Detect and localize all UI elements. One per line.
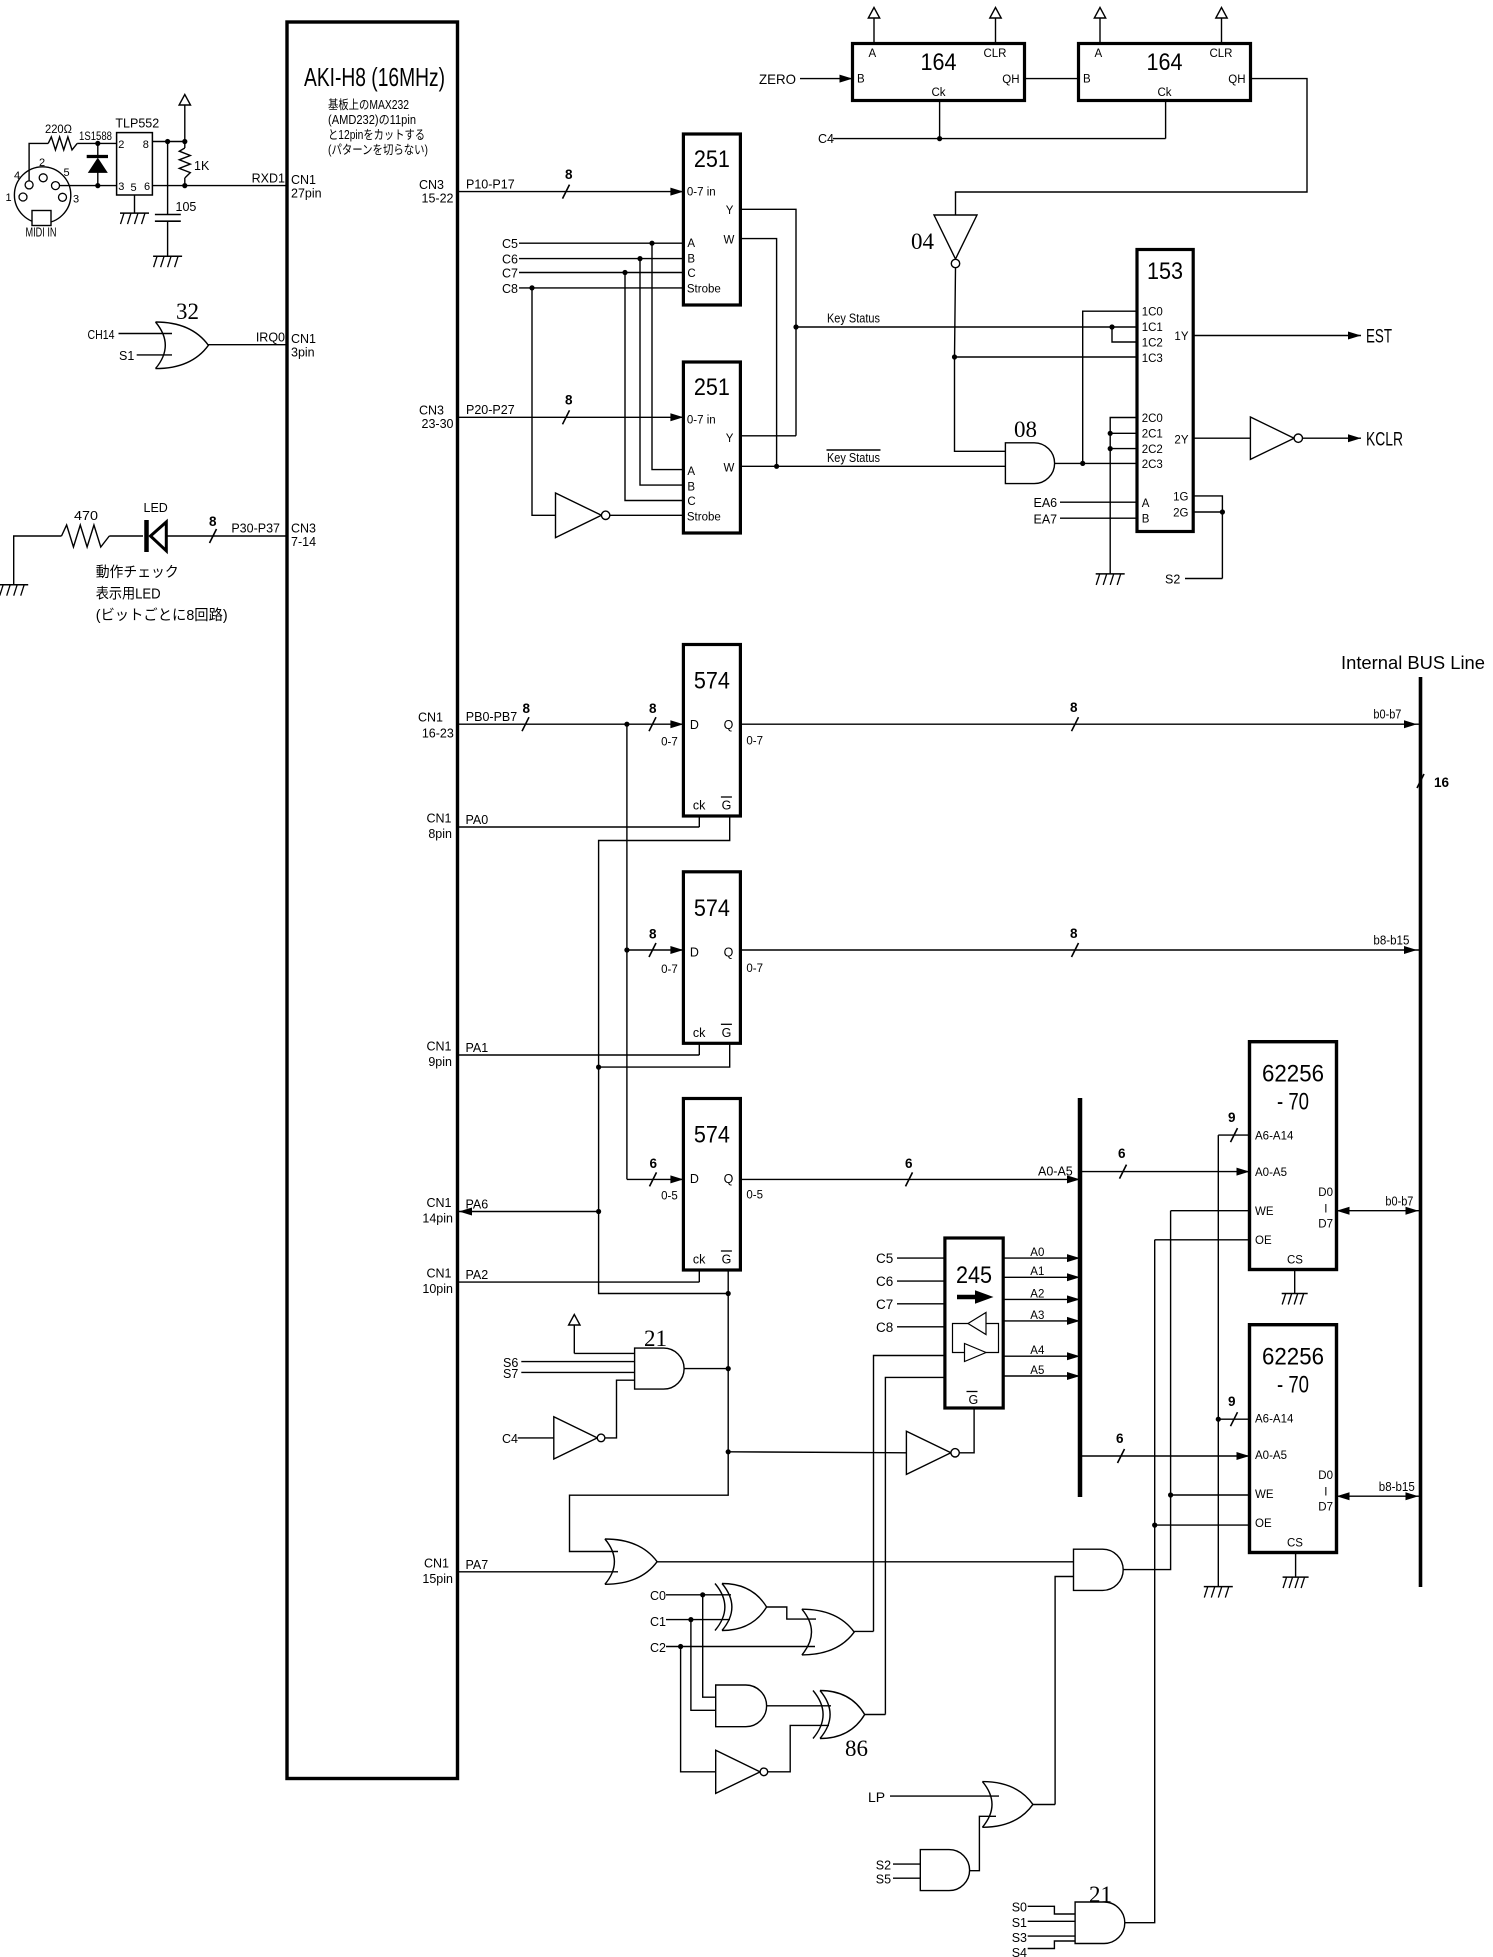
svg-text:D7: D7 bbox=[1318, 1219, 1333, 1231]
wire G3 vertical down bbox=[570, 1270, 731, 1552]
svg-text:G: G bbox=[722, 1026, 732, 1040]
svg-text:S2: S2 bbox=[876, 1859, 891, 1873]
wire C8 down to inverter bbox=[532, 288, 556, 515]
svg-text:2: 2 bbox=[39, 157, 45, 169]
svg-text:A0-A5: A0-A5 bbox=[1255, 1167, 1287, 1179]
pin CN1 10pin label bbox=[422, 1267, 453, 1297]
svg-text:C6: C6 bbox=[502, 253, 518, 267]
LED indicator diode bbox=[144, 501, 212, 552]
svg-text:A2: A2 bbox=[1030, 1288, 1044, 1300]
svg-text:PB0-PB7: PB0-PB7 bbox=[466, 710, 517, 724]
node address bus vertical bbox=[1078, 1098, 1083, 1497]
svg-text:1S1588: 1S1588 bbox=[79, 129, 112, 143]
svg-text:0-7: 0-7 bbox=[661, 737, 678, 749]
svg-text:P30-P37: P30-P37 bbox=[231, 522, 280, 536]
svg-text:6: 6 bbox=[1118, 1146, 1126, 1161]
svg-text:ck: ck bbox=[693, 799, 706, 813]
inverter for 245 G bbox=[906, 1408, 974, 1474]
svg-text:CN3: CN3 bbox=[291, 522, 316, 536]
svg-text:Ck: Ck bbox=[1157, 87, 1171, 99]
wire S1 bbox=[1012, 1916, 1075, 1930]
svg-text:PA0: PA0 bbox=[466, 813, 489, 827]
wire TLP552 pin8 to VCC node bbox=[152, 139, 187, 144]
and-gate 21 (S0 S1 S3 S4) bbox=[1075, 1882, 1125, 1944]
svg-text:B: B bbox=[1083, 74, 1091, 86]
svg-text:動作チェック: 動作チェック bbox=[96, 564, 179, 581]
svg-text:MIDI IN: MIDI IN bbox=[26, 226, 57, 240]
svg-text:Ck: Ck bbox=[931, 87, 945, 99]
svg-text:6: 6 bbox=[650, 1156, 658, 1171]
svg-text:164: 164 bbox=[921, 49, 957, 76]
svg-text:B: B bbox=[1142, 514, 1150, 526]
wire C1 to and bottom input bbox=[691, 1620, 716, 1711]
svg-text:8: 8 bbox=[143, 139, 149, 151]
power VCC arrow U1 pin A bbox=[868, 8, 879, 44]
svg-text:6: 6 bbox=[1116, 1431, 1124, 1446]
svg-text:CLR: CLR bbox=[1209, 48, 1232, 60]
inverter on 2Y bbox=[1193, 417, 1302, 459]
svg-text:C8: C8 bbox=[502, 282, 518, 296]
wire LP or output up bbox=[1033, 1804, 1055, 1806]
svg-text:C4: C4 bbox=[502, 1432, 518, 1446]
IC 164 shift register U1 bbox=[853, 44, 1025, 101]
wire D bus vertical to U6 and U7 bbox=[624, 724, 629, 1179]
inverter 04 (points down) bbox=[911, 215, 977, 268]
svg-text:0-5: 0-5 bbox=[746, 1190, 763, 1202]
svg-text:C4: C4 bbox=[818, 132, 834, 146]
svg-text:CS: CS bbox=[1287, 1255, 1303, 1267]
wire OE net vertical bbox=[1125, 1240, 1157, 1923]
or-gate PA7 bbox=[605, 1539, 657, 1584]
svg-text:A1: A1 bbox=[1030, 1266, 1044, 1278]
wire 2C0 2C1 2C2 to ground bbox=[1108, 418, 1137, 574]
svg-text:G: G bbox=[722, 799, 732, 813]
svg-text:2C1: 2C1 bbox=[1142, 429, 1163, 441]
svg-text:KCLR: KCLR bbox=[1366, 430, 1403, 451]
wire C0 bbox=[650, 1589, 731, 1603]
svg-text:A: A bbox=[1095, 48, 1103, 60]
svg-text:G: G bbox=[722, 1253, 732, 1267]
svg-text:S0: S0 bbox=[1012, 1901, 1027, 1915]
svg-text:62256: 62256 bbox=[1262, 1344, 1324, 1371]
svg-text:b8-b15: b8-b15 bbox=[1379, 1480, 1415, 1494]
svg-text:8: 8 bbox=[1070, 700, 1078, 715]
wire RXD1 from TLP552 pin6 to CN1 27pin bbox=[152, 172, 287, 189]
wire C7 to 245 bbox=[876, 1297, 945, 1312]
wire LP input bbox=[868, 1789, 999, 1805]
svg-text:245: 245 bbox=[956, 1262, 992, 1289]
wire MIDI pin5 to TLP552 pin3 bbox=[60, 185, 117, 187]
wire 245 B4 input from OR bbox=[874, 1356, 945, 1632]
svg-text:3: 3 bbox=[73, 194, 79, 206]
svg-text:CN1: CN1 bbox=[426, 812, 451, 826]
svg-text:C: C bbox=[687, 496, 695, 508]
svg-text:0-7 in: 0-7 in bbox=[687, 187, 716, 199]
svg-text:I: I bbox=[1324, 1487, 1327, 1499]
svg-text:CN1: CN1 bbox=[426, 1196, 451, 1210]
wire C7 down to U4 C bbox=[625, 273, 683, 501]
wire P20-P27 bus to 251 U4 bbox=[458, 393, 684, 425]
svg-text:(AMD232)の11pin: (AMD232)の11pin bbox=[328, 113, 416, 127]
svg-text:D: D bbox=[690, 1172, 699, 1186]
svg-text:CN1: CN1 bbox=[291, 332, 316, 346]
svg-text:4: 4 bbox=[14, 170, 20, 182]
wire Q2 to bus b8-b15 bbox=[740, 926, 1420, 957]
svg-text:A: A bbox=[1142, 498, 1150, 510]
IC AKI-H8 microcontroller box bbox=[287, 22, 458, 1779]
svg-text:(ビットごとに8回路): (ビットごとに8回路) bbox=[96, 607, 228, 624]
svg-text:ck: ck bbox=[693, 1253, 706, 1267]
wire QH2 to 04 inverter bbox=[956, 79, 1308, 215]
wire PA0 to ck U5 bbox=[458, 813, 700, 827]
IC 574 latch U7 bbox=[661, 1099, 763, 1271]
and-gate (C0 C1) bbox=[716, 1685, 767, 1727]
svg-text:S4: S4 bbox=[1012, 1946, 1027, 1957]
svg-text:A6-A14: A6-A14 bbox=[1255, 1414, 1294, 1426]
svg-text:21: 21 bbox=[644, 1326, 667, 1351]
wire A6-A14 vertical to ground bbox=[1216, 1135, 1221, 1587]
svg-text:CN1: CN1 bbox=[291, 173, 316, 187]
wire C8 strobe bbox=[502, 282, 683, 296]
svg-text:B: B bbox=[687, 482, 695, 494]
svg-text:15-22: 15-22 bbox=[422, 192, 454, 206]
svg-text:A5: A5 bbox=[1030, 1365, 1044, 1377]
svg-text:32: 32 bbox=[176, 299, 199, 324]
IC 62256-70 SRAM U8 bbox=[1250, 1042, 1337, 1270]
wire 21 output to G3 vertical bbox=[684, 1368, 728, 1370]
svg-text:B: B bbox=[857, 74, 865, 86]
svg-text:08: 08 bbox=[1014, 417, 1037, 442]
wire 245 A0 out bbox=[1003, 1247, 1080, 1262]
svg-text:16: 16 bbox=[1434, 775, 1450, 790]
svg-text:P10-P17: P10-P17 bbox=[466, 178, 515, 192]
svg-text:(パターンを切らない): (パターンを切らない) bbox=[328, 143, 428, 157]
svg-text:153: 153 bbox=[1147, 258, 1183, 285]
wire ZERO input bbox=[759, 71, 853, 87]
svg-text:ZERO: ZERO bbox=[759, 71, 796, 87]
svg-text:5: 5 bbox=[131, 182, 137, 194]
wire C2 down to inverter bbox=[681, 1647, 716, 1772]
svg-text:A0-A5: A0-A5 bbox=[1038, 1164, 1073, 1178]
wire C1 bbox=[650, 1615, 730, 1629]
IC 164 shift register U2 bbox=[1079, 44, 1251, 101]
svg-text:W: W bbox=[724, 463, 735, 475]
svg-text:1: 1 bbox=[6, 192, 12, 204]
svg-text:AKI-H8 (16MHz): AKI-H8 (16MHz) bbox=[304, 62, 445, 92]
svg-text:CH14: CH14 bbox=[88, 328, 115, 342]
xor-gate 86b bbox=[813, 1691, 868, 1762]
svg-text:9pin: 9pin bbox=[428, 1055, 452, 1069]
svg-text:C6: C6 bbox=[876, 1274, 893, 1289]
diode 1S1588 bbox=[79, 129, 112, 188]
svg-text:CN1: CN1 bbox=[418, 711, 443, 725]
wire P10-P17 bus to 251 U3 bbox=[458, 167, 684, 199]
wire C6 down to U4 B bbox=[640, 259, 683, 486]
svg-text:QH: QH bbox=[1002, 74, 1019, 86]
wire G1 route down bbox=[599, 816, 730, 1212]
wire 1Y to EST bbox=[1193, 327, 1392, 348]
svg-text:0-7: 0-7 bbox=[746, 736, 763, 748]
svg-text:574: 574 bbox=[694, 1122, 730, 1149]
wire G3-net to 245 inverter bbox=[728, 1452, 906, 1453]
wire PB0-PB7 bus bbox=[458, 701, 684, 731]
wire 1G 2G to S2 bbox=[1193, 496, 1225, 579]
svg-text:8: 8 bbox=[1070, 926, 1078, 941]
wire or output up to 245 B4 bbox=[854, 1630, 873, 1632]
svg-text:PA7: PA7 bbox=[466, 1558, 489, 1572]
svg-text:16-23: 16-23 bbox=[422, 727, 454, 741]
wire CH14 input bbox=[88, 328, 173, 342]
svg-text:b8-b15: b8-b15 bbox=[1373, 933, 1409, 947]
svg-text:A: A bbox=[869, 48, 877, 60]
wire Y2 join bbox=[740, 435, 796, 437]
svg-text:EA7: EA7 bbox=[1034, 513, 1058, 527]
wire C4 inverter to 21 gate input bbox=[605, 1380, 635, 1438]
power VCC arrow U2 pin CLR bbox=[1216, 8, 1227, 44]
wire S3 bbox=[1012, 1931, 1075, 1945]
wire C4 to Ck pins bbox=[818, 101, 1166, 147]
wire S0 bbox=[1012, 1901, 1075, 1915]
wire to 1C3 bbox=[955, 356, 1138, 358]
wire EA7 to B bbox=[1034, 513, 1138, 527]
wire WE U9 bbox=[1171, 1494, 1250, 1496]
wire 245 A2 out bbox=[1003, 1288, 1080, 1303]
capacitor 105 bbox=[155, 142, 197, 257]
svg-text:251: 251 bbox=[694, 146, 730, 173]
svg-text:D: D bbox=[690, 718, 699, 732]
svg-text:1C1: 1C1 bbox=[1142, 322, 1163, 334]
wire 08 output to 2C3 bbox=[1055, 461, 1137, 466]
node Key Status inverted to 08 gate bbox=[740, 450, 1005, 466]
svg-text:8: 8 bbox=[565, 167, 573, 182]
svg-text:2Y: 2Y bbox=[1174, 435, 1188, 447]
wire PA7 from CN1 15pin bbox=[458, 1558, 619, 1572]
svg-text:0-5: 0-5 bbox=[661, 1191, 678, 1203]
svg-text:S3: S3 bbox=[1012, 1931, 1027, 1945]
and-gate 08 bbox=[1005, 417, 1054, 484]
svg-text:A: A bbox=[687, 238, 695, 250]
resistor 1K bbox=[179, 142, 210, 186]
IC 62256-70 SRAM U9 bbox=[1250, 1325, 1337, 1553]
svg-text:TLP552: TLP552 bbox=[115, 117, 159, 131]
svg-text:Strobe: Strobe bbox=[687, 512, 721, 524]
and-gate 21 (S6 S7) bbox=[635, 1326, 684, 1389]
wire and bottom input from LP or bbox=[1055, 1577, 1073, 1805]
svg-text:C5: C5 bbox=[876, 1251, 893, 1266]
xor-gate 86a (C0 C1) bbox=[715, 1584, 767, 1631]
svg-text:CLR: CLR bbox=[983, 48, 1006, 60]
wire QH1 to B2 bbox=[1025, 78, 1079, 80]
svg-text:10pin: 10pin bbox=[422, 1282, 453, 1296]
pin CN3 23-30 label bbox=[419, 404, 454, 432]
svg-text:21: 21 bbox=[1089, 1882, 1112, 1907]
svg-text:2C3: 2C3 bbox=[1142, 459, 1163, 471]
svg-text:C0: C0 bbox=[650, 1589, 666, 1603]
inverter C4 bbox=[502, 1417, 605, 1459]
svg-text:1C0: 1C0 bbox=[1142, 307, 1163, 319]
svg-text:2: 2 bbox=[118, 139, 124, 151]
svg-text:b0-b7: b0-b7 bbox=[1373, 708, 1401, 722]
svg-text:IRQ0: IRQ0 bbox=[256, 331, 285, 345]
svg-text:P20-P27: P20-P27 bbox=[466, 403, 515, 417]
power VCC arrow U1 pin CLR bbox=[990, 8, 1001, 44]
svg-text:8: 8 bbox=[209, 514, 217, 529]
wire inverter to xor2 bottom input bbox=[768, 1725, 829, 1771]
pin CN1 27pin label bbox=[291, 173, 322, 201]
wire 245 B5 input from XOR bbox=[885, 1377, 945, 1713]
svg-text:14pin: 14pin bbox=[422, 1212, 453, 1226]
wire PA6 out bbox=[458, 1198, 602, 1216]
wire S7 bbox=[503, 1367, 635, 1381]
svg-text:1K: 1K bbox=[194, 159, 210, 173]
svg-text:Q: Q bbox=[724, 1172, 734, 1186]
svg-text:PA1: PA1 bbox=[466, 1041, 489, 1055]
svg-text:EA6: EA6 bbox=[1034, 496, 1058, 510]
pin CN1 16-23 label bbox=[418, 711, 454, 741]
wire S5 input bbox=[876, 1873, 921, 1887]
svg-text:Q: Q bbox=[724, 945, 734, 959]
wire 245 A5 out bbox=[1003, 1365, 1080, 1380]
or-gate 32 (CH14,S1 to IRQ0) bbox=[156, 299, 209, 369]
note: Japanese text about MAX232 11pin/12pin cut bbox=[328, 98, 428, 157]
svg-text:3: 3 bbox=[118, 181, 124, 193]
wire A6-A14 U9 with 9 bbox=[1218, 1394, 1249, 1426]
wire to KCLR bbox=[1302, 430, 1403, 451]
wire PA2 to ck U7 bbox=[458, 1268, 700, 1282]
svg-text:RXD1: RXD1 bbox=[252, 172, 285, 186]
svg-text:W: W bbox=[724, 235, 735, 247]
IC 574 latch U5 bbox=[661, 645, 763, 817]
wire OE U9 bbox=[1155, 1524, 1250, 1526]
wire A0-A5 U8 bbox=[1080, 1146, 1250, 1179]
and-gate WE driver bbox=[1074, 1549, 1124, 1590]
svg-text:A0: A0 bbox=[1030, 1247, 1044, 1259]
bus slash 16 bbox=[1417, 774, 1450, 790]
wire resistor to LED bbox=[109, 535, 143, 537]
pin CN3 7-14 label bbox=[291, 522, 316, 550]
svg-text:1G: 1G bbox=[1173, 491, 1188, 503]
svg-text:Y: Y bbox=[726, 205, 734, 217]
wire S2 input bbox=[876, 1859, 921, 1873]
svg-text:S5: S5 bbox=[876, 1873, 891, 1887]
wire W1 down to W2 bbox=[740, 239, 779, 469]
wire C6 to 245 bbox=[876, 1274, 945, 1289]
svg-text:2G: 2G bbox=[1173, 507, 1188, 519]
wire P30-P37 label bbox=[231, 522, 280, 536]
svg-text:D0: D0 bbox=[1318, 1470, 1333, 1482]
and-gate (S2 S5) bbox=[920, 1850, 969, 1891]
wire xor2 output up to 245 B5 bbox=[865, 1713, 886, 1716]
svg-text:574: 574 bbox=[694, 895, 730, 922]
wire C6 select bbox=[502, 253, 683, 267]
wire CS U9 to ground bbox=[1283, 1553, 1309, 1589]
svg-text:CN3: CN3 bbox=[419, 178, 444, 192]
svg-text:D: D bbox=[690, 945, 699, 959]
svg-text:A4: A4 bbox=[1030, 1345, 1045, 1357]
svg-text:04: 04 bbox=[911, 229, 935, 254]
pin CN1 9pin label bbox=[426, 1040, 452, 1070]
IC 153 multiplexer bbox=[1137, 250, 1193, 532]
ground under TLP552 pin5 bbox=[120, 195, 149, 224]
wire MIDI pin4 to 220ohm resistor bbox=[29, 143, 48, 180]
svg-text:b0-b7: b0-b7 bbox=[1385, 1194, 1413, 1208]
inverter C2 bbox=[716, 1750, 768, 1793]
svg-text:0-7: 0-7 bbox=[661, 964, 678, 976]
svg-text:Internal BUS Line: Internal BUS Line bbox=[1341, 653, 1485, 673]
svg-text:6: 6 bbox=[144, 181, 150, 193]
wire 245 A1 out bbox=[1003, 1266, 1080, 1281]
svg-text:C7: C7 bbox=[502, 267, 518, 281]
pin CN1 3pin label bbox=[291, 332, 316, 360]
wire G-net corner to G3 vertical bbox=[599, 1212, 731, 1297]
pin CN1 8pin label bbox=[426, 812, 452, 842]
node Key Status bbox=[796, 312, 1137, 330]
svg-text:Y: Y bbox=[726, 433, 734, 445]
svg-text:2C0: 2C0 bbox=[1142, 413, 1163, 425]
svg-text:C1: C1 bbox=[650, 1615, 666, 1629]
svg-text:8: 8 bbox=[523, 701, 531, 716]
wire xor1 output to or bbox=[767, 1607, 816, 1619]
svg-text:A0-A5: A0-A5 bbox=[1255, 1450, 1287, 1462]
svg-text:0-7: 0-7 bbox=[746, 963, 763, 975]
wire C5 down to U4 A bbox=[652, 243, 683, 469]
svg-text:1C2: 1C2 bbox=[1142, 338, 1163, 350]
svg-text:CN1: CN1 bbox=[426, 1267, 451, 1281]
resistor 220ohm bbox=[45, 122, 117, 150]
svg-text:QH: QH bbox=[1228, 74, 1245, 86]
IC 251 multiplexer U3 bbox=[683, 134, 740, 305]
ground under capacitor 105 bbox=[153, 256, 182, 267]
wire C7 select bbox=[502, 267, 683, 281]
wire Y1 to Key Status bbox=[740, 209, 798, 435]
svg-text:C2: C2 bbox=[650, 1641, 666, 1655]
svg-text:C: C bbox=[687, 268, 695, 280]
wire C5 select bbox=[502, 237, 683, 251]
wire WE U8 bbox=[1171, 1210, 1250, 1212]
wire Q3 to address bus A0-A5 bbox=[740, 1156, 1080, 1186]
power VCC arrow for 21 gate bbox=[569, 1315, 635, 1354]
pin CN1 14pin label bbox=[422, 1196, 453, 1226]
svg-text:S7: S7 bbox=[503, 1367, 518, 1381]
wire S2 bbox=[1165, 573, 1222, 587]
svg-text:OE: OE bbox=[1255, 1518, 1272, 1530]
wire PA1 to ck U6 bbox=[458, 1041, 700, 1055]
svg-text:Q: Q bbox=[724, 718, 734, 732]
svg-text:C7: C7 bbox=[876, 1297, 893, 1312]
wire S1 input bbox=[119, 349, 172, 363]
svg-text:- 70: - 70 bbox=[1277, 1089, 1309, 1116]
wire 1C0 to 08 output node bbox=[1083, 311, 1137, 463]
svg-text:470: 470 bbox=[74, 509, 98, 523]
pin CN3 15-22 label bbox=[419, 178, 454, 206]
wire OE U8 bbox=[1155, 1239, 1250, 1241]
wire C5 to 245 bbox=[876, 1251, 945, 1266]
svg-text:8: 8 bbox=[649, 701, 657, 716]
wire S4 bbox=[1012, 1941, 1075, 1957]
wire CS U8 to ground bbox=[1282, 1270, 1308, 1305]
svg-text:S2: S2 bbox=[1165, 573, 1180, 587]
MIDI IN DIN-5 connector bbox=[6, 157, 80, 240]
wire G2 route to vertical bbox=[596, 1043, 730, 1069]
wire IRQ0 to CN1 3pin bbox=[208, 331, 287, 345]
svg-text:G: G bbox=[969, 1393, 979, 1407]
wire C0 to and top input bbox=[703, 1595, 716, 1697]
ground at LED resistor bbox=[0, 536, 61, 596]
svg-text:S1: S1 bbox=[1012, 1916, 1027, 1930]
svg-text:WE: WE bbox=[1255, 1489, 1274, 1501]
svg-text:574: 574 bbox=[694, 668, 730, 695]
svg-text:9: 9 bbox=[1228, 1110, 1236, 1125]
